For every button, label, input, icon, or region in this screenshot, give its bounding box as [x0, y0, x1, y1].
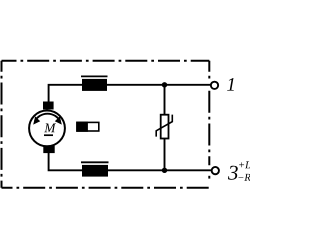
varistor R1: [156, 115, 172, 139]
wire: varistor bottom down to node B: [164, 138, 166, 170]
terminal 3: [212, 167, 219, 174]
motor M1 bottom brush: [43, 146, 54, 153]
pin label suffix -R: [238, 174, 250, 181]
motor M1 rotation arrow (bidirectional): [33, 114, 62, 125]
motor M1 body: [29, 110, 65, 146]
junction node B: [162, 168, 167, 173]
pin label 1: [227, 78, 234, 91]
permanent magnet symbol: [76, 122, 99, 132]
wire: node A down to varistor top: [164, 85, 166, 115]
motor M1 top brush: [43, 102, 54, 110]
pin label suffix +L: [239, 161, 250, 168]
pin label 3: [228, 166, 238, 180]
wire: choke L1 right through node A to terminal 1: [107, 84, 211, 86]
terminal 1: [211, 82, 218, 89]
wire: motor top brush up and right to choke L1: [49, 85, 82, 103]
motor M1 letter M with underline: [44, 124, 56, 136]
junction node A: [162, 82, 167, 87]
wire: motor bottom brush down and right to choke L2: [49, 152, 82, 170]
suppression choke L1 (with core line): [81, 76, 108, 91]
wire: choke L2 right through node B to terminal 3: [108, 169, 212, 171]
enclosure outline (dash-dot boundary): [2, 61, 210, 188]
suppression choke L2 (with core line): [81, 162, 109, 176]
